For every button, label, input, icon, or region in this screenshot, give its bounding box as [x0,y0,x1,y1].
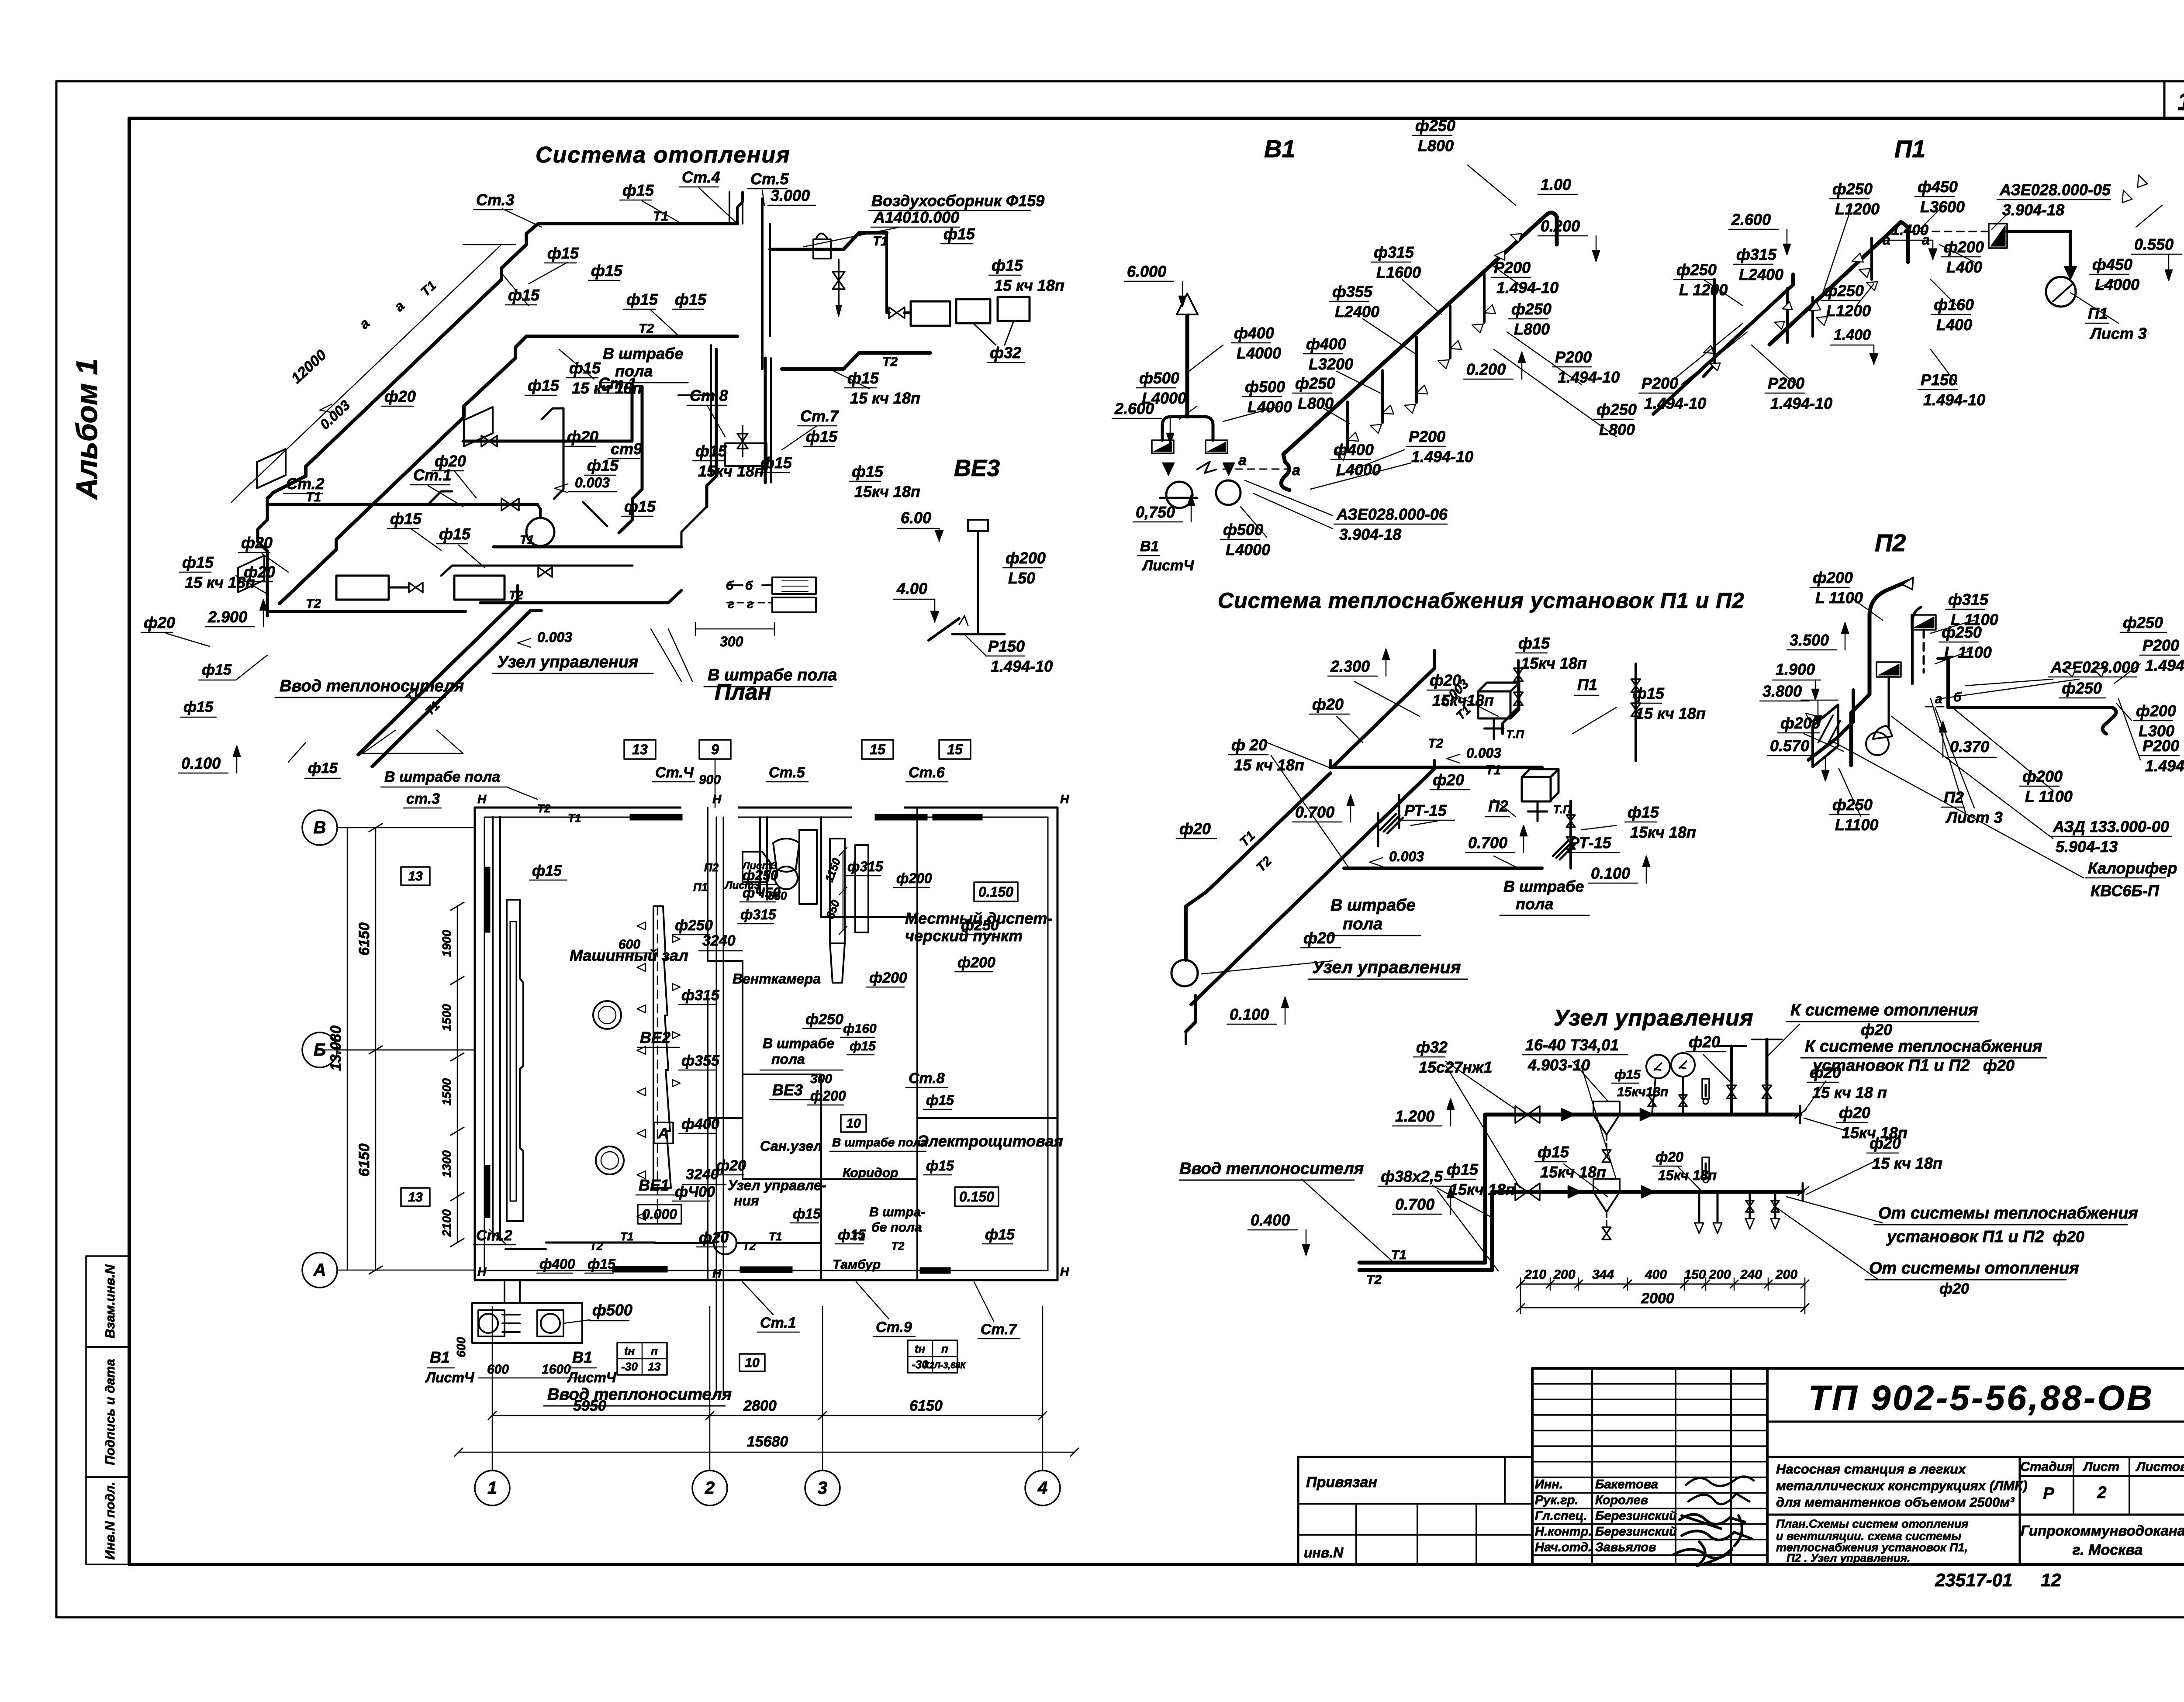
svg-text:ф20: ф20 [1312,695,1344,713]
svg-text:ф15: ф15 [847,369,879,387]
svg-text:К системе теплоснабжения: К системе теплоснабжения [1805,1037,2042,1056]
svg-text:L 1200: L 1200 [1679,281,1728,299]
svg-text:бе пола: бе пола [871,1220,922,1235]
svg-text:15680: 15680 [747,1433,788,1450]
svg-text:Н: Н [712,792,722,806]
svg-text:10: 10 [745,1356,760,1370]
svg-text:пола: пола [1343,915,1382,933]
svg-text:15кч18п: 15кч18п [1617,1085,1668,1099]
svg-text:Ст.1: Ст.1 [760,1315,796,1331]
svg-text:ф355: ф355 [681,1053,720,1069]
svg-text:ф15: ф15 [926,1092,954,1108]
svg-text:пола: пола [1516,895,1553,913]
svg-text:ф315: ф315 [1736,245,1777,263]
svg-text:600: 600 [619,937,640,952]
svg-text:ф15: ф15 [675,290,707,308]
svg-text:Лист 3: Лист 3 [2089,325,2147,342]
svg-text:В1: В1 [1264,135,1296,162]
svg-text:L3200: L3200 [1309,355,1353,373]
svg-text:ф500: ф500 [1139,369,1179,387]
svg-text:0.003: 0.003 [1466,745,1501,761]
svg-text:ф450: ф450 [1918,178,1958,196]
svg-text:Лист3: Лист3 [742,860,778,872]
svg-text:ф15: ф15 [508,286,540,304]
svg-text:фЧ00: фЧ00 [675,1184,715,1200]
svg-text:ВЕ3: ВЕ3 [954,455,1000,481]
svg-text:ф15: ф15 [985,1226,1015,1243]
svg-text:15 кч 18п: 15 кч 18п [1635,704,1706,722]
svg-text:Н: Н [1060,792,1069,806]
svg-text:б: б [1953,690,1962,704]
svg-text:В штрабе: В штрабе [763,1036,834,1051]
svg-text:ф20: ф20 [144,614,175,632]
svg-text:Ст.8: Ст.8 [909,1070,945,1087]
svg-text:ф15: ф15 [1518,634,1550,652]
svg-text:1.00: 1.00 [1541,176,1571,193]
svg-text:Узел управления: Узел управления [1554,1005,1754,1031]
svg-text:Березинский: Березинский [1595,1509,1677,1523]
svg-text:15с27нж1: 15с27нж1 [1419,1058,1492,1076]
svg-text:ф400: ф400 [539,1256,575,1272]
svg-text:Н: Н [712,1267,722,1280]
svg-text:15кч 18п: 15кч 18п [1449,1181,1515,1198]
svg-text:От системы теплоснабжения: От системы теплоснабжения [1878,1204,2138,1222]
svg-text:ф250: ф250 [2062,679,2102,697]
svg-text:П1: П1 [1577,676,1597,694]
svg-text:Стадия: Стадия [2020,1460,2073,1474]
svg-text:Привязан: Привязан [1306,1474,1377,1491]
svg-text:210: 210 [1524,1267,1546,1282]
svg-text:А: А [313,1260,326,1280]
svg-text:3.800: 3.800 [1762,682,1802,700]
svg-text:11: 11 [2177,87,2184,116]
svg-text:5.904-13: 5.904-13 [2056,838,2118,856]
svg-text:Венткамера: Венткамера [733,971,821,987]
svg-text:L50: L50 [1008,569,1035,587]
svg-text:В штрабе: В штрабе [603,345,683,362]
svg-text:0.700: 0.700 [1395,1195,1434,1213]
svg-text:1.400: 1.400 [1891,222,1928,238]
svg-text:0.003: 0.003 [537,629,572,645]
svg-text:Ст.5: Ст.5 [750,170,789,188]
svg-text:0.003: 0.003 [1389,849,1424,864]
svg-text:Т2: Т2 [537,802,551,815]
svg-text:Р150: Р150 [988,637,1025,655]
svg-text:ф20: ф20 [2053,1228,2084,1246]
svg-text:1900: 1900 [440,929,453,957]
svg-text:Н.контр.: Н.контр. [1535,1525,1592,1539]
svg-text:3.904-18: 3.904-18 [1339,525,1401,543]
svg-text:Узел управле-: Узел управле- [728,1177,826,1193]
svg-text:12: 12 [2041,1570,2061,1590]
svg-text:ф15: ф15 [793,1206,821,1222]
svg-text:ф400: ф400 [1234,324,1274,342]
svg-text:ф32: ф32 [990,344,1021,362]
svg-text:г. Москва: г. Москва [2073,1542,2143,1558]
svg-text:П2: П2 [704,861,719,874]
svg-text:Ст.8: Ст.8 [690,387,728,404]
svg-text:900: 900 [699,773,721,787]
svg-text:200: 200 [1553,1267,1575,1282]
svg-text:15: 15 [870,742,886,757]
svg-text:Т1: Т1 [568,811,581,825]
svg-text:Р200: Р200 [1555,348,1592,366]
svg-text:2: 2 [2097,1484,2106,1502]
svg-text:0.100: 0.100 [1591,864,1630,882]
svg-text:344: 344 [1592,1267,1614,1282]
svg-text:Узел управления: Узел управления [497,653,638,671]
svg-text:Т2: Т2 [306,597,321,611]
svg-text:Ст.1: Ст.1 [598,374,637,392]
svg-text:ф315: ф315 [1374,243,1414,261]
svg-text:ф400: ф400 [681,1116,719,1132]
svg-text:В штрабе: В штрабе [1503,877,1584,895]
svg-text:В1: В1 [430,1348,450,1366]
svg-text:П1: П1 [1894,135,1925,162]
svg-text:инв.N: инв.N [1304,1545,1344,1560]
svg-text:Лист 3: Лист 3 [1945,808,2003,826]
svg-text:1.494-10: 1.494-10 [2145,656,2184,674]
svg-text:Н: Н [477,792,487,806]
svg-text:13: 13 [632,742,648,757]
svg-text:ф20: ф20 [241,534,273,552]
svg-text:L800: L800 [1418,137,1454,155]
svg-text:Ст.6: Ст.6 [909,764,945,781]
svg-text:200: 200 [1708,1267,1731,1282]
svg-text:ф15: ф15 [760,454,792,472]
svg-text:13: 13 [408,869,423,884]
svg-text:ф250: ф250 [1295,374,1335,392]
svg-text:пола: пола [771,1051,805,1067]
svg-text:1.494-10: 1.494-10 [1770,394,1832,412]
svg-text:16-40 Т34,01: 16-40 Т34,01 [1525,1036,1619,1054]
svg-text:ст.3: ст.3 [406,791,440,807]
svg-text:ф200: ф200 [1944,238,1984,256]
svg-text:3.500: 3.500 [1790,631,1829,649]
svg-text:ф15: ф15 [926,1158,954,1174]
svg-text:L1200: L1200 [1826,302,1871,320]
svg-text:ф355: ф355 [1332,283,1373,300]
svg-text:ф200: ф200 [2136,702,2176,720]
svg-text:tн: tн [915,1342,926,1355]
svg-text:ф15: ф15 [439,525,471,543]
svg-text:РТ-15: РТ-15 [1569,834,1612,852]
svg-text:2100: 2100 [440,1209,453,1237]
svg-text:4.00: 4.00 [896,580,927,597]
svg-text:0.700: 0.700 [1468,834,1507,852]
svg-text:Березинский: Березинский [1595,1525,1677,1539]
svg-text:План.Схемы систем отопления: План.Схемы систем отопления [1776,1517,1968,1530]
svg-text:ф15: ф15 [587,1256,616,1272]
svg-text:ф315: ф315 [1948,590,1989,608]
svg-text:2.300: 2.300 [1330,657,1370,675]
svg-text:0.370: 0.370 [1950,738,1989,756]
svg-text:1500: 1500 [440,1004,453,1031]
svg-text:ф20: ф20 [1655,1149,1683,1165]
svg-text:ф15: ф15 [943,225,975,243]
svg-text:В штрабе пола: В штрабе пола [384,769,500,785]
svg-text:Ст.1: Ст.1 [413,466,452,484]
svg-text:ф15: ф15 [308,760,338,777]
svg-text:Ст.5: Ст.5 [769,764,805,781]
svg-text:ф15: ф15 [624,497,656,515]
svg-text:400: 400 [1645,1267,1667,1282]
svg-text:L1100: L1100 [1835,816,1878,834]
svg-text:ф200: ф200 [810,1088,846,1104]
svg-text:9: 9 [711,742,719,757]
svg-text:13: 13 [408,1190,423,1205]
svg-text:Т1: Т1 [1391,1248,1406,1262]
svg-text:L1200: L1200 [1835,200,1880,218]
svg-text:Ст.4: Ст.4 [682,168,720,186]
svg-text:В1: В1 [572,1348,592,1366]
svg-text:Р200: Р200 [1494,259,1531,276]
svg-text:ф15: ф15 [532,863,562,879]
svg-text:15кч 18п: 15кч 18п [1630,823,1696,841]
svg-text:Ст.7: Ст.7 [981,1321,1018,1338]
svg-text:L 1100: L 1100 [1944,643,1992,661]
svg-text:ф250: ф250 [2123,614,2163,632]
svg-text:0,750: 0,750 [1136,503,1175,521]
svg-text:ф15: ф15 [622,181,654,199]
svg-text:L1600: L1600 [1376,263,1421,281]
svg-text:6.00: 6.00 [901,509,931,527]
svg-text:ф32: ф32 [1416,1038,1448,1056]
svg-text:1.494-10: 1.494-10 [991,657,1053,675]
svg-text:ф15: ф15 [626,290,658,308]
svg-text:Ввод теплоносителя: Ввод теплоносителя [547,1385,732,1404]
svg-text:L4000: L4000 [2095,276,2139,293]
svg-text:6150: 6150 [909,1398,943,1414]
svg-text:П2: П2 [1488,797,1508,815]
svg-text:L 1100: L 1100 [1815,589,1863,607]
svg-text:П1: П1 [2088,304,2108,322]
svg-text:ф160: ф160 [1934,296,1974,314]
svg-text:13.080: 13.080 [328,1025,344,1071]
svg-text:Насосная станция в легких: Насосная станция в легких [1776,1461,1966,1477]
svg-text:2: 2 [705,1478,715,1498]
svg-text:550: 550 [768,889,787,902]
svg-text:ТП 902-5-56,88-ОВ: ТП 902-5-56,88-ОВ [1808,1378,2154,1417]
svg-text:Т1: Т1 [852,1230,865,1243]
svg-text:ф200: ф200 [1813,569,1853,587]
svg-text:Система теплоснабжения устано: Система теплоснабжения установок П1 и П2 [1218,588,1745,613]
svg-text:ф20: ф20 [716,1157,746,1174]
svg-text:ф15: ф15 [992,256,1023,274]
svg-text:А: А [658,1125,669,1142]
svg-text:L2400: L2400 [1739,266,1783,283]
svg-text:Бакетова: Бакетова [1595,1478,1658,1491]
svg-text:а: а [1238,452,1247,469]
svg-text:1.494-10: 1.494-10 [1496,279,1559,297]
svg-text:Нач.отд.: Нач.отд. [1535,1540,1592,1554]
svg-text:ф20: ф20 [244,563,275,581]
svg-text:0.400: 0.400 [1251,1211,1290,1229]
svg-text:ф20: ф20 [1939,1281,1969,1297]
svg-text:ф250: ф250 [1415,117,1455,135]
svg-text:ф500: ф500 [1245,378,1285,396]
svg-text:В: В [314,818,326,837]
svg-text:3.904-18: 3.904-18 [2002,201,2064,219]
svg-text:3240: 3240 [702,932,736,949]
svg-text:L800: L800 [1514,320,1550,338]
svg-text:ф250: ф250 [1597,400,1637,418]
svg-text:2.600: 2.600 [1731,211,1771,228]
svg-text:ф15: ф15 [591,262,623,280]
svg-text:Ст.2: Ст.2 [286,475,325,493]
svg-text:0.200: 0.200 [1466,360,1506,378]
svg-text:ф20: ф20 [1870,1134,1901,1152]
svg-text:План: План [715,680,771,705]
svg-text:АЗЕ028.000-05: АЗЕ028.000-05 [1999,181,2111,199]
svg-text:ния: ния [734,1193,759,1208]
svg-text:ф160: ф160 [843,1022,877,1036]
svg-text:L400: L400 [1936,316,1972,334]
svg-text:1600: 1600 [542,1362,571,1377]
svg-text:ф250: ф250 [1511,300,1552,318]
svg-text:0.570: 0.570 [1770,737,1809,755]
svg-text:Т2: Т2 [639,321,654,336]
svg-text:ф15: ф15 [202,662,232,678]
svg-text:Королев: Королев [1595,1493,1648,1507]
svg-text:Р: Р [2043,1485,2054,1503]
svg-text:2.900: 2.900 [207,608,247,626]
svg-text:ф20: ф20 [699,1229,729,1246]
svg-text:0.100: 0.100 [1230,1005,1269,1023]
svg-text:Р200: Р200 [2143,737,2179,755]
svg-text:В1: В1 [1140,538,1159,555]
svg-text:ф20: ф20 [1810,1063,1841,1081]
svg-text:КВС6Б-П: КВС6Б-П [2091,882,2160,900]
svg-text:АЗЕ028.000-06: АЗЕ028.000-06 [1336,505,1448,523]
svg-text:ф500: ф500 [1223,521,1263,539]
svg-text:А14010.000: А14010.000 [873,208,959,226]
svg-text:ф250: ф250 [1942,623,1982,641]
svg-text:ф315: ф315 [681,987,720,1004]
svg-text:ф15: ф15 [182,553,214,571]
svg-text:б: б [726,579,734,592]
svg-text:Т1: Т1 [769,1230,782,1243]
svg-text:15кч 18п: 15кч 18п [1540,1163,1606,1181]
svg-text:Ст.2: Ст.2 [476,1227,512,1244]
svg-text:а: а [1292,462,1300,479]
svg-text:Взам.инв.N: Взам.инв.N [103,1264,117,1338]
svg-text:ф400: ф400 [1334,441,1374,459]
svg-text:Т2: Т2 [1366,1273,1382,1287]
svg-text:3.000: 3.000 [771,186,810,204]
svg-text:установок П1 и П2: установок П1 и П2 [1886,1228,2044,1246]
svg-text:ф15: ф15 [1628,803,1659,821]
svg-text:б: б [745,579,753,592]
svg-text:Сан.узел: Сан.узел [760,1138,822,1154]
svg-text:Завьялов: Завьялов [1595,1540,1656,1554]
svg-text:ф315: ф315 [847,859,884,874]
svg-text:0.150: 0.150 [959,1189,994,1205]
svg-text:Ст.Ч: Ст.Ч [655,764,694,781]
svg-text:ф200: ф200 [957,954,995,971]
svg-text:15 кч 18п: 15 кч 18п [1234,756,1304,774]
svg-text:300: 300 [810,1072,832,1086]
svg-text:ф20: ф20 [1839,1104,1870,1122]
svg-text:Т2: Т2 [1428,736,1443,751]
svg-text:Р200: Р200 [1641,374,1678,392]
svg-text:ф 20: ф 20 [1231,736,1267,754]
svg-text:ст9: ст9 [611,440,642,458]
svg-text:Калорифер: Калорифер [2088,859,2177,877]
svg-text:Ст.9: Ст.9 [876,1319,912,1336]
svg-text:1.494-10: 1.494-10 [1644,394,1706,412]
svg-text:РТ-15: РТ-15 [1404,801,1447,819]
svg-text:ф200: ф200 [1780,714,1821,732]
svg-text:L4000: L4000 [1336,461,1381,479]
svg-text:ф250: ф250 [1676,261,1717,279]
svg-text:АЗД 133.000-00: АЗД 133.000-00 [2053,818,2169,835]
svg-text:15 кч 18п: 15 кч 18п [850,389,920,407]
svg-text:13: 13 [648,1360,661,1373]
svg-text:ф15: ф15 [850,1039,876,1053]
svg-text:2800: 2800 [743,1398,777,1414]
svg-text:1.400: 1.400 [1834,327,1871,343]
svg-text:4: 4 [1037,1478,1047,1498]
svg-text:Ст.7: Ст.7 [800,407,840,425]
svg-text:Инв.N подл.: Инв.N подл. [103,1482,117,1560]
svg-text:15кч 18п: 15кч 18п [854,483,920,501]
svg-text:ф500: ф500 [592,1301,632,1319]
svg-text:ф20: ф20 [1861,1021,1892,1039]
svg-text:ф20: ф20 [384,387,416,405]
svg-text:ф400: ф400 [1306,335,1346,353]
svg-text:ВЕ3: ВЕ3 [772,1081,803,1099]
svg-text:ВЕ1: ВЕ1 [639,1176,669,1194]
svg-text:Коридор: Коридор [843,1166,898,1180]
svg-text:Т2: Т2 [743,1239,756,1253]
svg-text:ф250: ф250 [805,1011,843,1028]
svg-text:1.494-10: 1.494-10 [1923,391,1985,409]
svg-text:6.000: 6.000 [1127,262,1166,280]
svg-text:200: 200 [1775,1267,1797,1282]
svg-text:Инн.: Инн. [1535,1478,1563,1491]
svg-text:г: г [747,597,753,611]
svg-text:L800: L800 [1298,394,1334,412]
svg-text:ф38х2,5: ф38х2,5 [1381,1167,1443,1185]
svg-text:п: п [941,1342,948,1355]
svg-text:1.900: 1.900 [1776,660,1815,678]
svg-text:0.150: 0.150 [978,884,1013,900]
svg-text:Т2: Т2 [882,355,898,369]
svg-text:Т1: Т1 [1486,763,1501,777]
svg-text:ф20: ф20 [1433,771,1464,789]
svg-text:Лист: Лист [2083,1460,2119,1474]
svg-text:Листов: Листов [2136,1460,2184,1474]
svg-text:Система отопления: Система отопления [536,142,791,168]
svg-text:Узел управления: Узел управления [1312,958,1461,977]
svg-text:2.600: 2.600 [1114,400,1154,418]
svg-text:Р200: Р200 [1768,374,1804,392]
svg-text:Гл.спец.: Гл.спец. [1535,1509,1587,1523]
svg-text:Р200: Р200 [2143,636,2179,654]
svg-text:ф200: ф200 [1006,549,1046,567]
svg-text:1.200: 1.200 [1395,1107,1434,1125]
svg-text:ф20: ф20 [1983,1056,2015,1074]
svg-text:3: 3 [818,1478,827,1498]
svg-text:металлических конструкциях (ЛМ: металлических конструкциях (ЛМК) [1776,1478,2027,1493]
svg-text:Альбом 1: Альбом 1 [70,359,104,500]
svg-text:Т.П: Т.П [1506,728,1524,741]
svg-text:П2: П2 [1875,529,1906,556]
svg-text:0.550: 0.550 [2134,235,2174,253]
svg-text:г: г [728,597,734,611]
svg-text:1.494-10: 1.494-10 [1558,368,1620,386]
